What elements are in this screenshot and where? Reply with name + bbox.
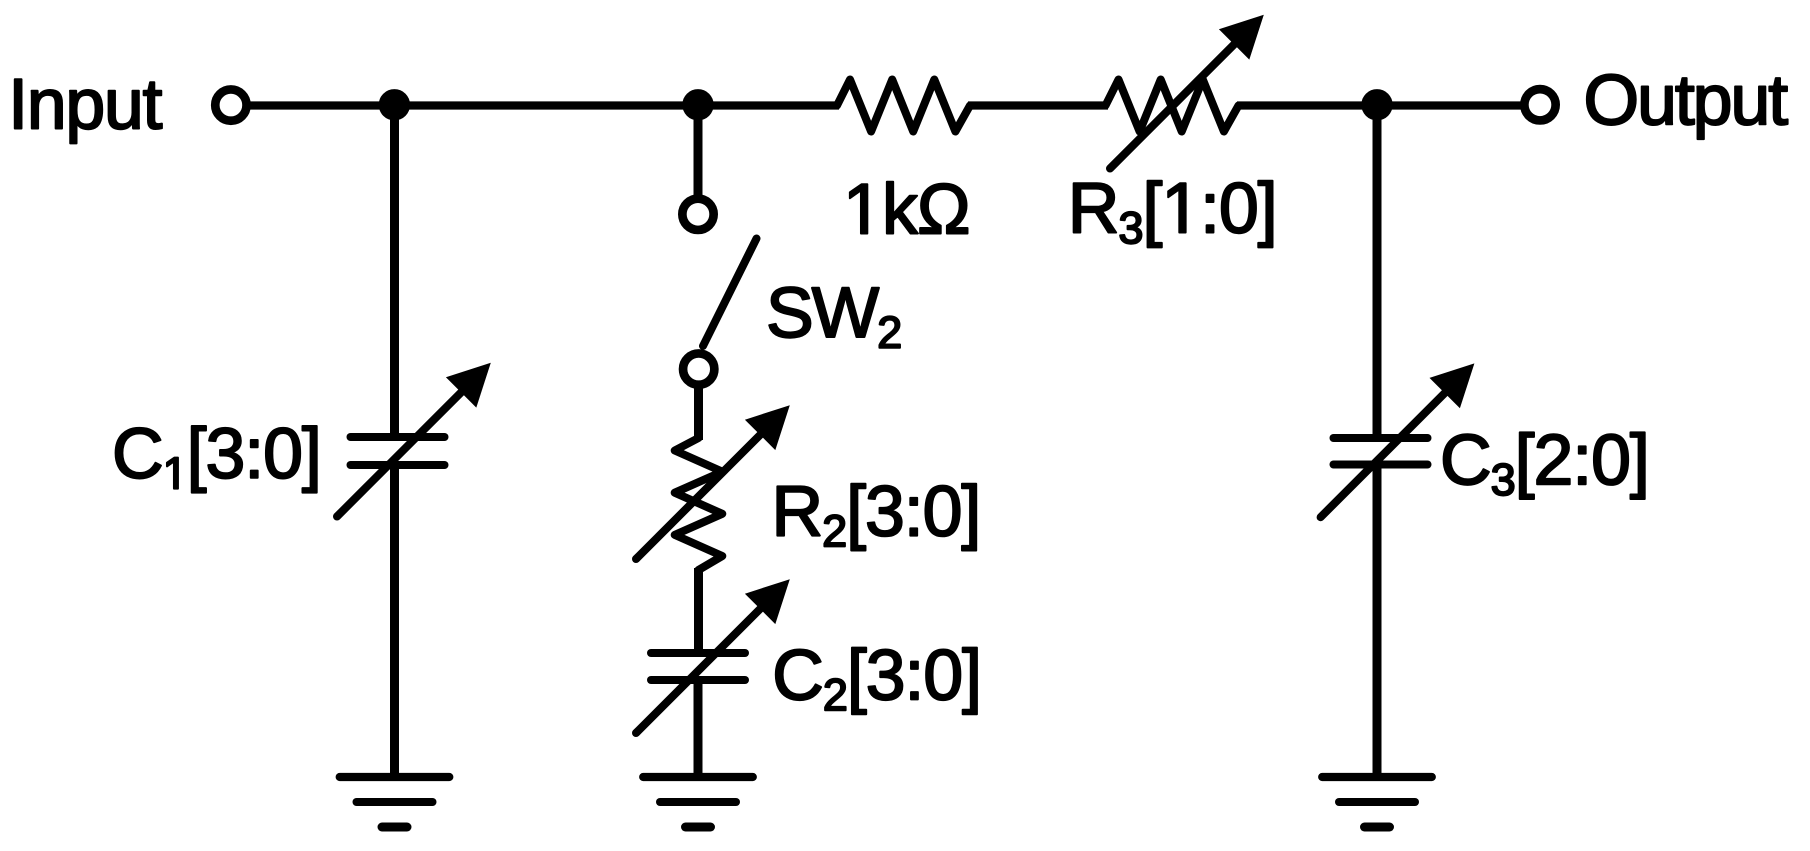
- input terminal: [215, 89, 246, 120]
- variable capacitor C2 arrow: [636, 594, 775, 733]
- wire: junction A to junction B: [394, 101, 699, 109]
- node B junction dot: [682, 89, 713, 120]
- wire: R2 to capacitor C2: [694, 568, 703, 650]
- ground (C2 branch): [643, 773, 753, 781]
- ground (C1 branch): [340, 773, 450, 781]
- output terminal: [1524, 89, 1555, 120]
- node C junction dot: [1361, 89, 1392, 120]
- variable capacitor C1 plates: [351, 433, 445, 441]
- variable capacitor C3 arrow: [1321, 378, 1460, 517]
- label C1[3:0]: [116, 426, 317, 493]
- wire: junction C down to capacitor C3: [1373, 106, 1382, 437]
- wire: 1k resistor to variable resistor R3: [968, 101, 1108, 109]
- node A junction dot: [379, 89, 410, 120]
- value label 1kOhm: [850, 182, 968, 234]
- node Input label: [15, 79, 162, 143]
- label C2[3:0]: [776, 648, 977, 715]
- resistor 1kOhm zigzag: [837, 80, 970, 132]
- wire: junction C to output terminal: [1377, 101, 1523, 109]
- label SW2: [769, 287, 900, 348]
- label R2[3:0]: [777, 484, 976, 551]
- variable capacitor C3 plates: [1334, 434, 1428, 442]
- variable capacitor C2 plates: [651, 649, 745, 657]
- variable resistor R3 zigzag: [1106, 80, 1239, 132]
- variable resistor R2 zigzag: [675, 438, 723, 570]
- wire: junction A down to capacitor C1: [390, 106, 399, 436]
- variable resistor R2 arrow: [636, 420, 775, 559]
- node Output label: [1587, 74, 1788, 139]
- wire: capacitor C2 to ground: [694, 681, 703, 776]
- switch SW2 bottom contact: [683, 353, 714, 384]
- wire: input terminal to junction A: [249, 101, 396, 109]
- wire: capacitor C1 to ground: [390, 463, 399, 776]
- variable resistor R3 arrow: [1110, 30, 1249, 169]
- label C3[2:0]: [1444, 432, 1645, 499]
- wire: switch SW2 to variable resistor R2: [694, 388, 703, 440]
- wire: capacitor C3 to ground: [1373, 462, 1382, 776]
- wire: junction B to resistor 1k: [698, 101, 839, 109]
- ground (C3 branch): [1322, 773, 1432, 781]
- label R3[1:0]: [1074, 181, 1273, 248]
- wire: R3 to junction C: [1237, 101, 1378, 109]
- switch SW2 blade: [703, 239, 757, 347]
- variable capacitor C1 arrow: [337, 378, 476, 517]
- switch SW2 top contact: [682, 199, 713, 230]
- wire: junction B down to switch SW2 top contact: [694, 106, 703, 197]
